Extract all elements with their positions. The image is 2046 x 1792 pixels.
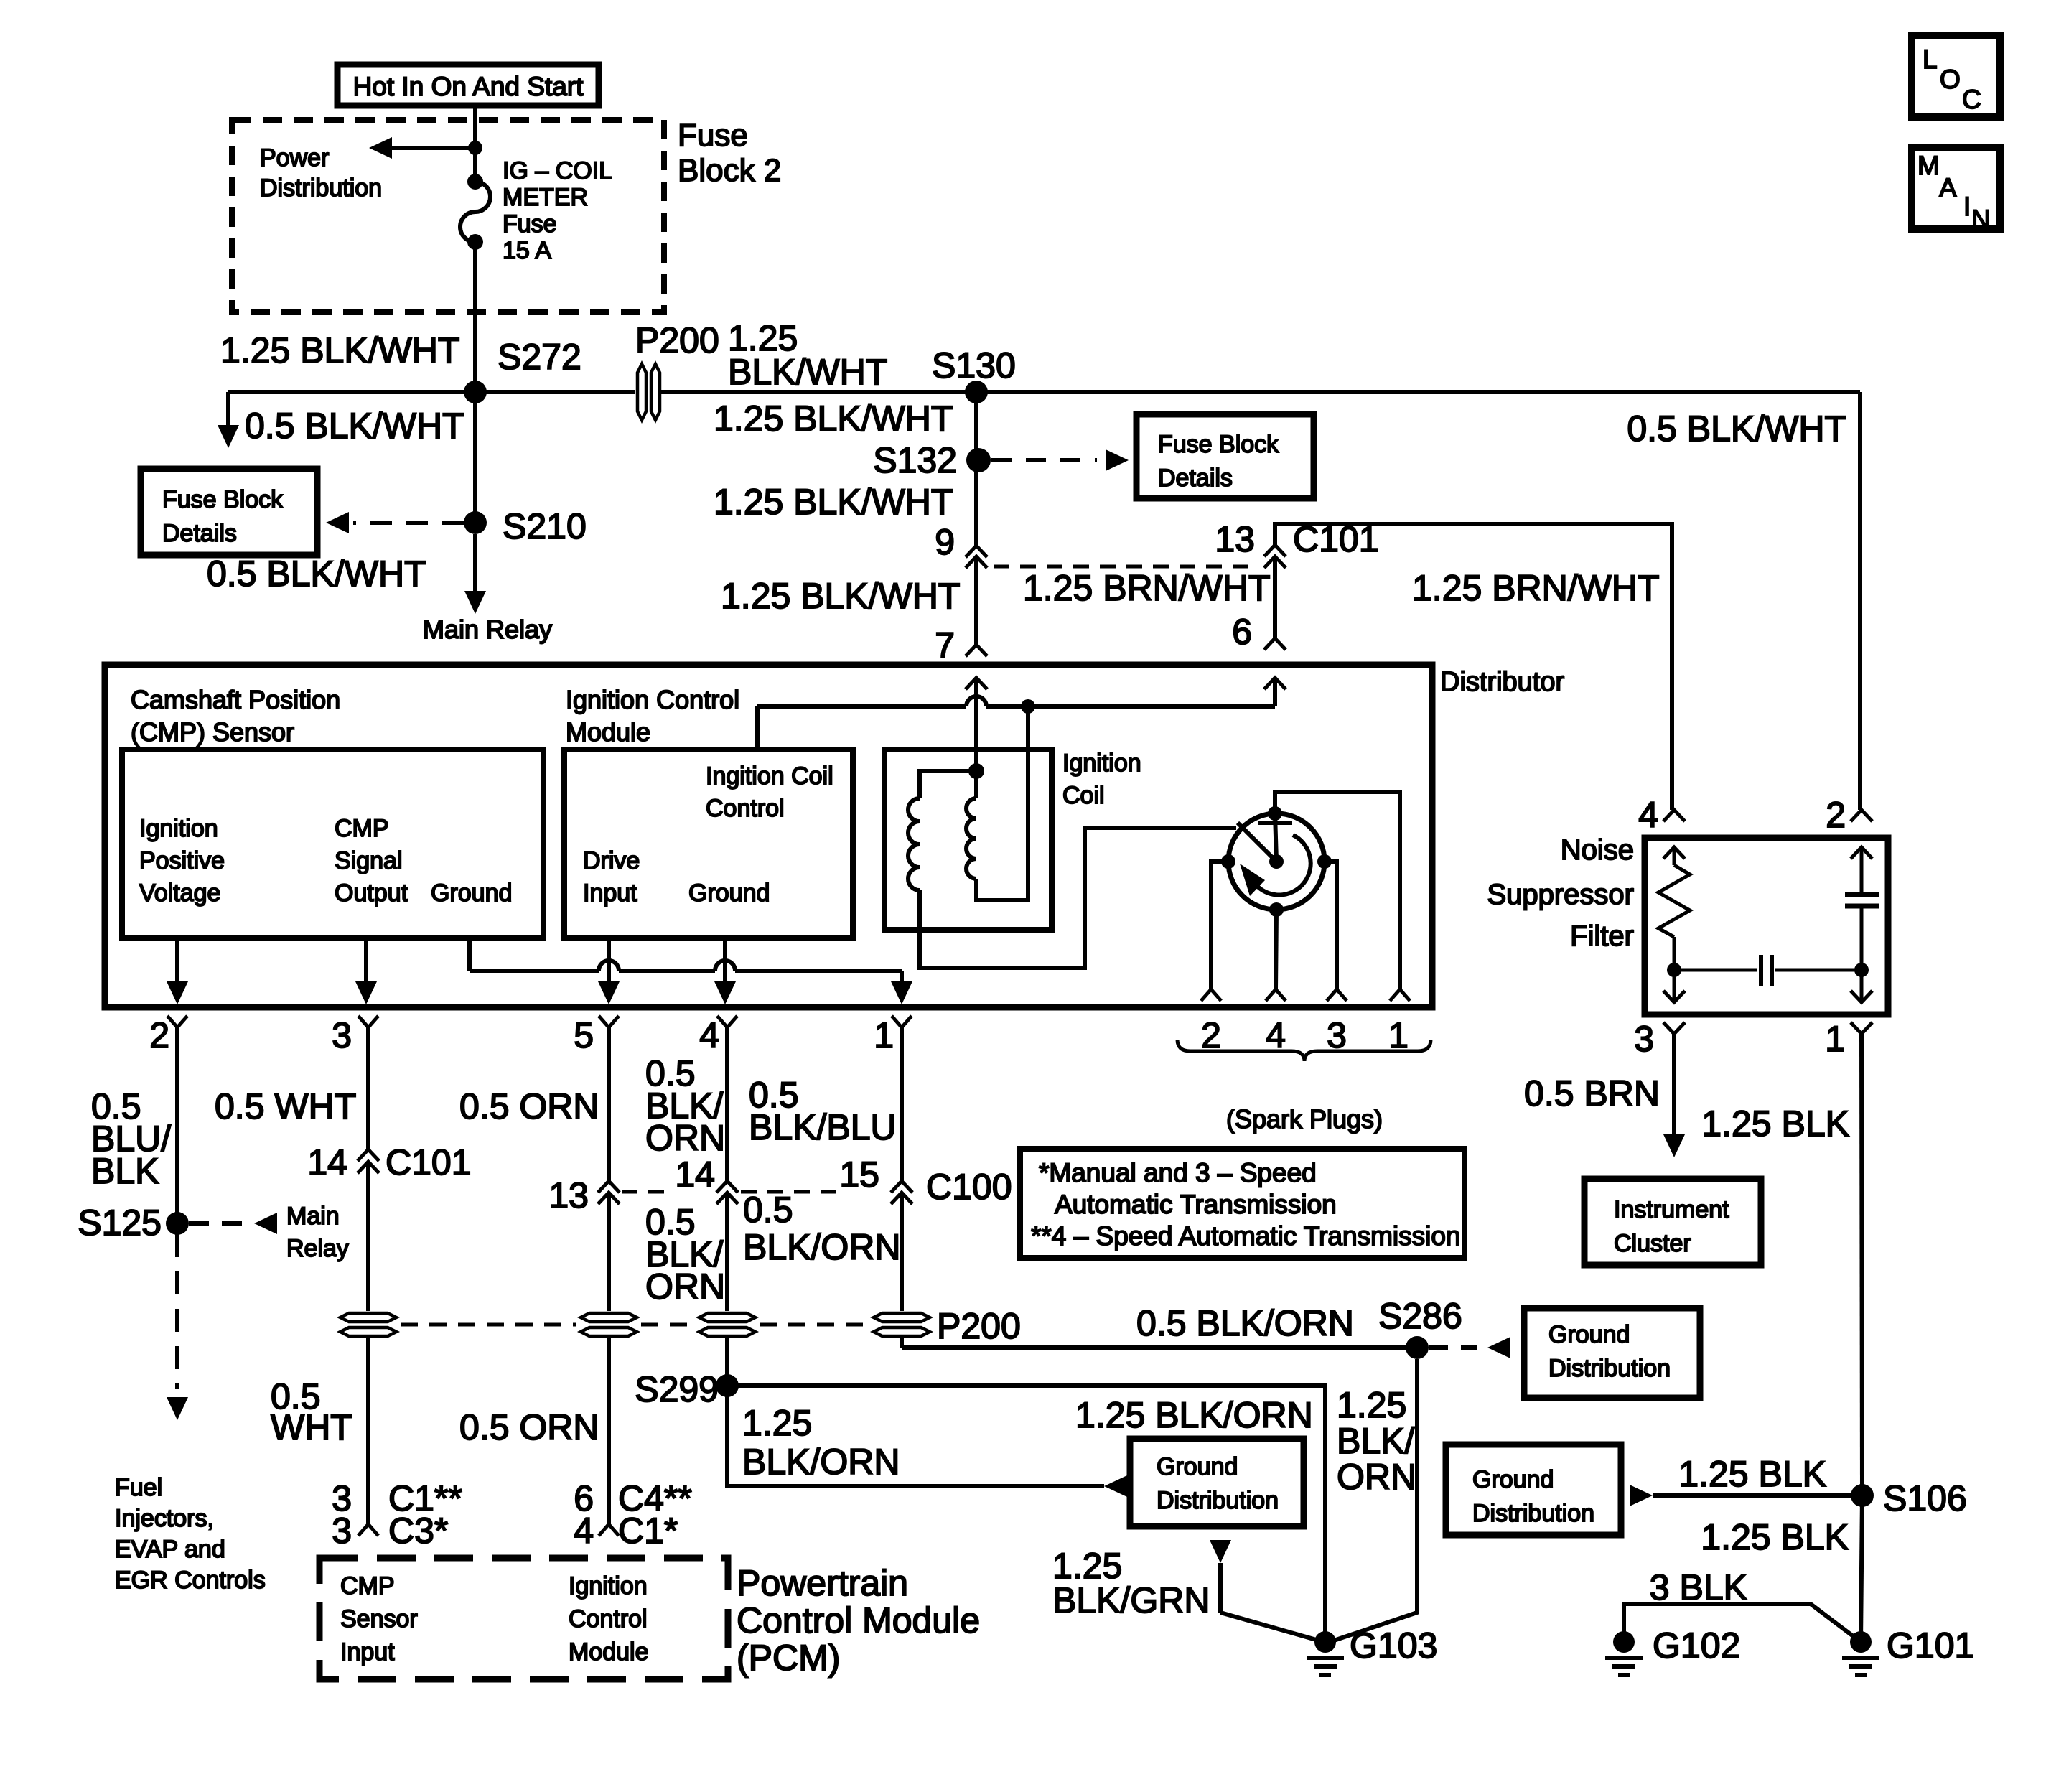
svg-text:BLK/: BLK/ <box>1337 1421 1415 1461</box>
svg-text:0.5 BRN: 0.5 BRN <box>1524 1073 1660 1114</box>
svg-text:Ground: Ground <box>1157 1453 1238 1480</box>
svg-text:*Manual and 3 – Speed: *Manual and 3 – Speed <box>1039 1158 1317 1187</box>
svg-text:G102: G102 <box>1653 1625 1740 1666</box>
svg-text:1.25 BLK/WHT: 1.25 BLK/WHT <box>714 482 953 522</box>
svg-text:0.5 BLK/ORN: 0.5 BLK/ORN <box>1136 1303 1354 1343</box>
svg-text:Output: Output <box>335 879 408 907</box>
svg-text:Injectors,: Injectors, <box>115 1505 214 1532</box>
svg-text:13: 13 <box>1215 519 1255 559</box>
svg-text:14: 14 <box>675 1154 715 1195</box>
svg-text:Instrument: Instrument <box>1614 1196 1729 1223</box>
svg-text:Ignition: Ignition <box>139 815 218 842</box>
svg-text:Camshaft Position: Camshaft Position <box>131 685 340 714</box>
svg-text:1: 1 <box>1825 1019 1845 1059</box>
svg-text:ORN: ORN <box>1337 1457 1416 1497</box>
svg-text:1.25 BLK/WHT: 1.25 BLK/WHT <box>220 330 459 370</box>
svg-text:1.25 BLK: 1.25 BLK <box>1701 1103 1849 1144</box>
svg-text:0.5 ORN: 0.5 ORN <box>459 1086 599 1126</box>
svg-text:15: 15 <box>839 1154 879 1195</box>
svg-text:ORN: ORN <box>645 1266 725 1307</box>
svg-text:Suppressor: Suppressor <box>1487 879 1634 910</box>
svg-text:(Spark Plugs): (Spark Plugs) <box>1226 1104 1383 1134</box>
svg-text:9: 9 <box>935 522 955 562</box>
svg-text:Hot In On And Start: Hot In On And Start <box>353 72 584 101</box>
svg-text:BLK/ORN: BLK/ORN <box>742 1442 900 1482</box>
svg-text:Noise: Noise <box>1561 834 1634 866</box>
svg-text:1.25 BLK/WHT: 1.25 BLK/WHT <box>721 576 960 616</box>
svg-text:Main: Main <box>286 1203 340 1230</box>
svg-text:Ignition: Ignition <box>1062 750 1141 777</box>
svg-text:N: N <box>1971 205 1991 234</box>
svg-text:Module: Module <box>569 1638 649 1666</box>
svg-text:2: 2 <box>1826 795 1846 835</box>
svg-text:Ignition Control: Ignition Control <box>566 685 739 714</box>
svg-text:Ground: Ground <box>431 879 512 907</box>
svg-text:Main Relay: Main Relay <box>423 615 552 644</box>
svg-text:3 BLK: 3 BLK <box>1650 1567 1747 1607</box>
svg-text:Fuse Block: Fuse Block <box>162 486 284 513</box>
svg-text:0.5 BLK/WHT: 0.5 BLK/WHT <box>245 406 464 446</box>
svg-text:1: 1 <box>874 1015 894 1055</box>
svg-text:Coil: Coil <box>1062 782 1105 809</box>
svg-text:IG – COIL: IG – COIL <box>503 157 612 185</box>
svg-text:(PCM): (PCM) <box>737 1638 840 1678</box>
svg-text:BLK: BLK <box>91 1151 159 1191</box>
svg-text:0.5: 0.5 <box>743 1190 793 1230</box>
svg-text:S286: S286 <box>1378 1296 1462 1336</box>
svg-text:EVAP and: EVAP and <box>115 1536 225 1563</box>
svg-text:14: 14 <box>307 1142 347 1182</box>
svg-text:Control: Control <box>706 795 785 822</box>
svg-text:C: C <box>1962 85 1981 114</box>
svg-text:0.5 BLK/WHT: 0.5 BLK/WHT <box>207 554 426 594</box>
svg-text:P200: P200 <box>937 1306 1021 1346</box>
svg-text:4: 4 <box>1638 795 1658 835</box>
svg-text:Ground: Ground <box>1472 1466 1554 1493</box>
svg-text:A: A <box>1939 173 1957 202</box>
svg-text:P200: P200 <box>635 320 719 360</box>
svg-text:0.5 WHT: 0.5 WHT <box>215 1086 356 1126</box>
svg-text:Distributor: Distributor <box>1440 667 1564 697</box>
svg-text:Details: Details <box>162 520 237 547</box>
svg-text:Powertrain: Powertrain <box>737 1563 908 1603</box>
svg-text:C101: C101 <box>386 1142 472 1182</box>
svg-text:S106: S106 <box>1883 1478 1967 1518</box>
svg-text:1.25: 1.25 <box>1337 1385 1406 1425</box>
svg-text:Automatic Transmission: Automatic Transmission <box>1055 1190 1337 1219</box>
svg-text:Ignition: Ignition <box>569 1572 648 1600</box>
svg-text:EGR Controls: EGR Controls <box>115 1567 266 1594</box>
svg-text:S125: S125 <box>78 1203 162 1243</box>
svg-text:Filter: Filter <box>1570 920 1634 952</box>
svg-text:Sensor: Sensor <box>340 1605 418 1633</box>
svg-text:Input: Input <box>340 1638 395 1666</box>
svg-text:1.25 BLK: 1.25 BLK <box>1678 1454 1826 1494</box>
svg-text:1.25: 1.25 <box>742 1403 812 1443</box>
svg-text:METER: METER <box>503 184 588 211</box>
svg-text:BLK/BLU: BLK/BLU <box>749 1107 897 1147</box>
svg-text:Fuse Block: Fuse Block <box>1158 431 1279 458</box>
svg-text:(CMP) Sensor: (CMP) Sensor <box>131 717 294 747</box>
svg-text:S272: S272 <box>498 337 581 377</box>
svg-text:5: 5 <box>574 1015 594 1055</box>
svg-text:CMP: CMP <box>335 815 389 842</box>
svg-text:BLK/WHT: BLK/WHT <box>728 352 887 392</box>
svg-text:Distribution: Distribution <box>1548 1355 1671 1382</box>
svg-text:I: I <box>1963 192 1971 221</box>
svg-text:L: L <box>1923 45 1938 74</box>
svg-text:C101: C101 <box>1293 519 1379 559</box>
svg-text:4: 4 <box>699 1015 719 1055</box>
svg-text:C3*: C3* <box>388 1511 448 1551</box>
svg-text:6: 6 <box>1232 612 1252 652</box>
svg-text:O: O <box>1940 65 1961 94</box>
svg-text:BLK/ORN: BLK/ORN <box>743 1227 901 1267</box>
svg-text:G101: G101 <box>1887 1625 1974 1666</box>
svg-text:Drive: Drive <box>583 847 640 874</box>
svg-text:15 A: 15 A <box>503 237 551 264</box>
svg-text:Distribution: Distribution <box>260 174 382 202</box>
svg-text:**4 – Speed Automatic Transmis: **4 – Speed Automatic Transmission <box>1031 1221 1461 1251</box>
svg-text:WHT: WHT <box>271 1407 352 1447</box>
svg-text:C1*: C1* <box>618 1511 678 1551</box>
svg-text:S210: S210 <box>503 506 587 546</box>
svg-text:Ingition Coil: Ingition Coil <box>706 762 833 790</box>
svg-text:3: 3 <box>332 1511 352 1551</box>
svg-text:C100: C100 <box>926 1167 1012 1207</box>
svg-text:Control Module: Control Module <box>737 1600 980 1641</box>
svg-text:1.25 BLK/ORN: 1.25 BLK/ORN <box>1075 1395 1313 1435</box>
svg-text:Positive: Positive <box>139 847 225 874</box>
svg-text:Module: Module <box>566 717 650 747</box>
svg-text:G103: G103 <box>1350 1625 1437 1666</box>
svg-text:Ground: Ground <box>688 879 770 907</box>
svg-text:0.5 ORN: 0.5 ORN <box>459 1407 599 1447</box>
svg-text:Fuse: Fuse <box>503 210 557 238</box>
svg-text:Voltage: Voltage <box>139 879 220 907</box>
svg-text:S130: S130 <box>932 345 1016 386</box>
svg-text:13: 13 <box>548 1175 589 1215</box>
svg-text:4: 4 <box>574 1511 594 1551</box>
svg-text:Input: Input <box>583 879 637 907</box>
svg-text:S132: S132 <box>873 440 957 480</box>
svg-text:BLK/GRN: BLK/GRN <box>1052 1580 1210 1620</box>
svg-text:Signal: Signal <box>335 847 403 874</box>
svg-text:Block 2: Block 2 <box>678 153 781 188</box>
svg-text:1.25 BRN/WHT: 1.25 BRN/WHT <box>1412 568 1660 608</box>
svg-text:M: M <box>1917 151 1940 180</box>
svg-text:0.5 BLK/WHT: 0.5 BLK/WHT <box>1627 409 1846 449</box>
svg-text:Ground: Ground <box>1548 1321 1630 1348</box>
svg-text:Details: Details <box>1158 465 1233 492</box>
svg-text:Control: Control <box>569 1605 648 1633</box>
svg-text:Relay: Relay <box>286 1235 349 1262</box>
svg-text:Fuse: Fuse <box>678 118 748 153</box>
svg-text:Distribution: Distribution <box>1157 1487 1279 1514</box>
svg-text:1.25 BRN/WHT: 1.25 BRN/WHT <box>1023 568 1271 608</box>
svg-text:1.25 BLK/WHT: 1.25 BLK/WHT <box>714 398 953 439</box>
svg-text:Cluster: Cluster <box>1614 1230 1691 1257</box>
svg-text:Fuel: Fuel <box>115 1474 162 1501</box>
svg-text:S299: S299 <box>635 1369 719 1409</box>
svg-text:3: 3 <box>1634 1019 1654 1059</box>
svg-text:Distribution: Distribution <box>1472 1500 1594 1527</box>
svg-text:1.25 BLK: 1.25 BLK <box>1701 1517 1849 1557</box>
svg-text:CMP: CMP <box>340 1572 395 1600</box>
svg-text:2: 2 <box>149 1015 169 1055</box>
svg-text:Power: Power <box>260 144 329 172</box>
svg-text:7: 7 <box>935 625 955 666</box>
svg-text:ORN: ORN <box>645 1118 725 1158</box>
svg-text:3: 3 <box>332 1015 352 1055</box>
